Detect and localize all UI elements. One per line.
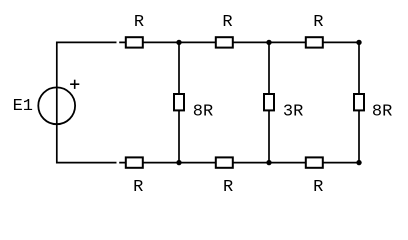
junction node A top bbox=[176, 40, 181, 45]
svg-text:8R: 8R bbox=[193, 103, 213, 122]
resistor R bottom-left box bbox=[126, 157, 143, 167]
svg-text:8R: 8R bbox=[372, 103, 392, 122]
wire branch node A bbox=[178, 42, 180, 162]
wire left source branch bbox=[56, 42, 58, 164]
wire bottom rail right segment bbox=[119, 162, 359, 164]
svg-text:3R: 3R bbox=[283, 103, 303, 122]
junction node B bottom bbox=[266, 160, 271, 165]
junction node A bottom bbox=[176, 160, 181, 165]
voltage source E1 circle bbox=[38, 87, 75, 124]
junction node C top bbox=[356, 40, 361, 45]
wire branch node B bbox=[268, 42, 270, 162]
junction node B top bbox=[266, 40, 271, 45]
svg-text:R: R bbox=[222, 13, 232, 32]
svg-text:R: R bbox=[134, 13, 144, 32]
resistor 3R box bbox=[264, 94, 274, 110]
svg-text:R: R bbox=[313, 13, 323, 32]
resistor R top-right box bbox=[306, 37, 323, 47]
resistor R top-left box bbox=[126, 37, 143, 47]
resistor 8R left box bbox=[174, 94, 184, 110]
wire bottom rail left segment bbox=[57, 162, 117, 164]
svg-text:R: R bbox=[223, 178, 233, 197]
svg-text:E1: E1 bbox=[13, 97, 33, 116]
resistor R bottom-middle box bbox=[216, 157, 233, 167]
wire top rail right segment bbox=[119, 41, 359, 43]
svg-text:R: R bbox=[313, 178, 323, 197]
resistor 8R right box bbox=[354, 94, 364, 110]
wire top rail left segment bbox=[57, 41, 117, 43]
resistor R bottom-right box bbox=[306, 157, 323, 167]
svg-text:R: R bbox=[133, 178, 143, 197]
junction node C bottom bbox=[356, 160, 361, 165]
wire branch node C bbox=[358, 42, 360, 162]
voltage source E1 plus sign bbox=[70, 80, 79, 89]
resistor R top-middle box bbox=[216, 37, 233, 47]
